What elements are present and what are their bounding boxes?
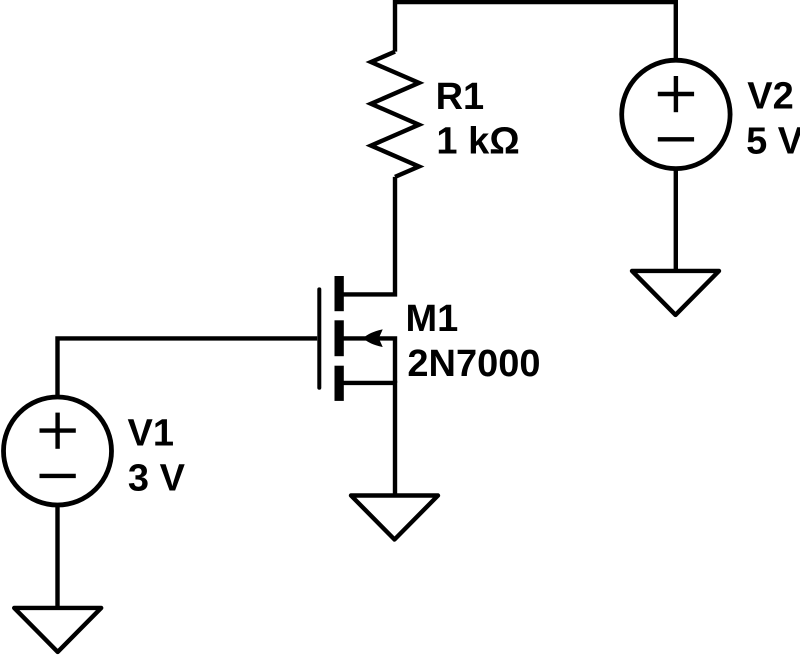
transistor M1 channel bars — [335, 276, 344, 401]
ground (M1 source) — [351, 496, 438, 540]
voltage source V2 circle — [622, 60, 730, 168]
wire top rail — [395, 2, 676, 61]
svg-text:R1: R1 — [436, 76, 485, 118]
svg-text:1 kΩ: 1 kΩ — [436, 120, 519, 162]
V1 minus sign — [40, 474, 76, 478]
V2 minus sign — [658, 137, 694, 141]
svg-text:V2: V2 — [747, 76, 793, 118]
wire R1 bottom to drain — [340, 177, 395, 295]
resistor R1 — [371, 52, 419, 177]
svg-text:2N7000: 2N7000 — [407, 343, 540, 385]
svg-text:M1: M1 — [406, 298, 459, 340]
transistor M1 body arrow — [363, 329, 382, 347]
ground (V2) — [632, 271, 719, 315]
voltage source V1 circle — [4, 397, 112, 505]
V2 plus sign — [658, 76, 694, 139]
V1 plus sign — [40, 413, 76, 476]
svg-text:3 V: 3 V — [128, 458, 186, 500]
wire V2 bottom — [674, 169, 678, 272]
wire source lead — [340, 383, 395, 497]
svg-text:5 V: 5 V — [746, 120, 800, 162]
wire gate lead from V1 — [58, 338, 318, 396]
ground (V1) — [14, 608, 101, 652]
svg-text:V1: V1 — [128, 412, 174, 454]
wire body arrow lead — [342, 338, 395, 383]
transistor M1 gate line — [317, 289, 321, 387]
wire V1 bottom — [55, 506, 59, 610]
